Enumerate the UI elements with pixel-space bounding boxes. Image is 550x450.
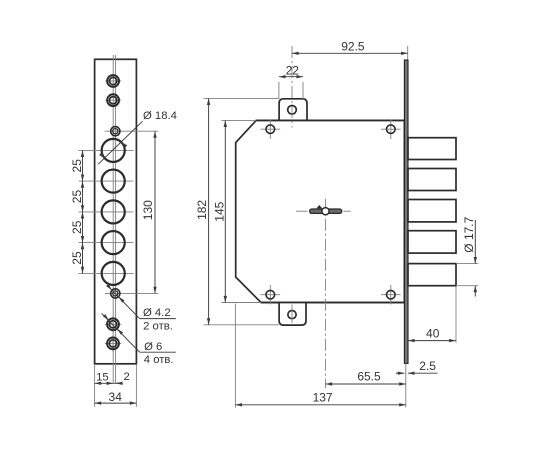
svg-text:2.5: 2.5 xyxy=(419,359,436,373)
svg-text:25: 25 xyxy=(70,159,84,173)
svg-text:25: 25 xyxy=(70,220,84,234)
svg-text:Ø 6: Ø 6 xyxy=(144,341,162,353)
svg-text:15: 15 xyxy=(96,371,109,383)
svg-text:4 отв.: 4 отв. xyxy=(144,354,174,366)
svg-text:Ø 18.4: Ø 18.4 xyxy=(143,110,177,122)
svg-text:22: 22 xyxy=(286,63,300,77)
svg-text:Ø 4.2: Ø 4.2 xyxy=(143,307,171,319)
svg-text:25: 25 xyxy=(70,251,84,265)
svg-text:182: 182 xyxy=(195,200,209,220)
svg-text:2: 2 xyxy=(124,371,130,383)
svg-text:130: 130 xyxy=(141,200,155,220)
svg-text:145: 145 xyxy=(212,201,226,221)
svg-text:34: 34 xyxy=(109,390,123,404)
svg-text:40: 40 xyxy=(426,327,440,341)
svg-text:Ø 17.7: Ø 17.7 xyxy=(462,216,476,252)
svg-text:65.5: 65.5 xyxy=(357,370,381,384)
svg-text:25: 25 xyxy=(70,190,84,204)
svg-text:2 отв.: 2 отв. xyxy=(143,320,173,332)
svg-text:137: 137 xyxy=(313,391,333,405)
svg-text:92.5: 92.5 xyxy=(341,39,365,53)
